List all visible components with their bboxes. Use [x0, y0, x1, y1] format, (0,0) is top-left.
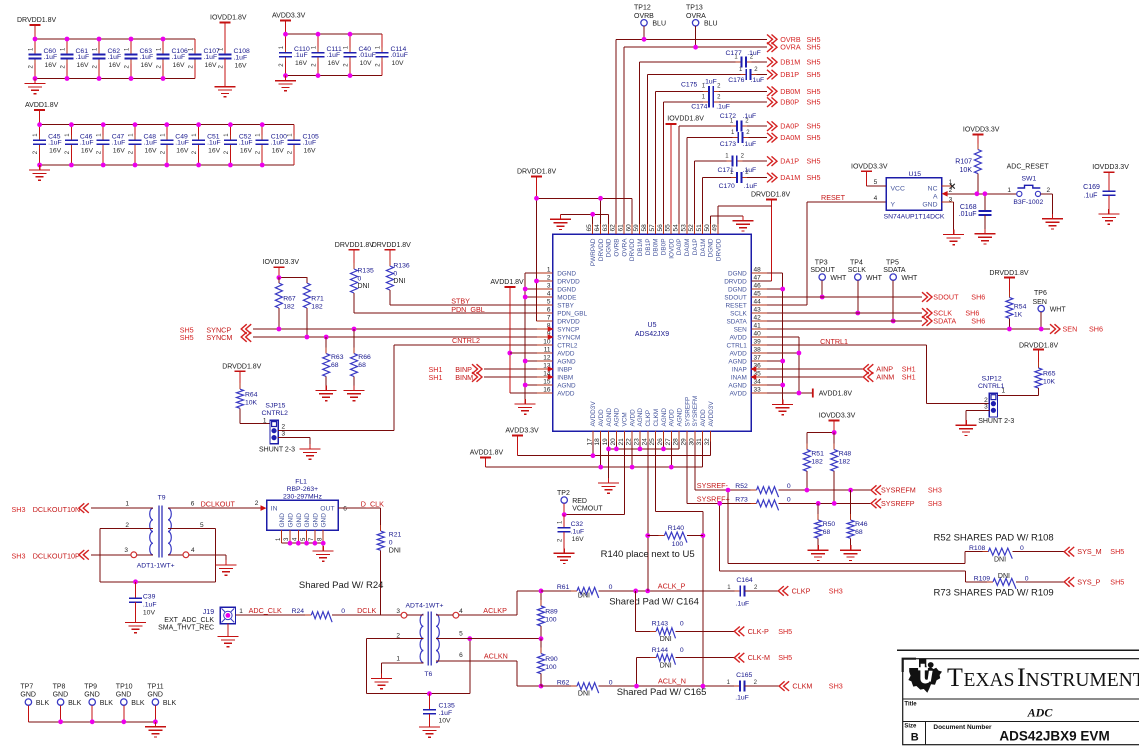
resistor R21 0 DNI [377, 525, 401, 615]
capacitor C176 [739, 67, 758, 80]
resistor R52 0 [735, 483, 871, 497]
svg-text:SH5: SH5 [807, 157, 821, 166]
capacitor C171 [725, 153, 744, 166]
wire net SYSREF+ (pin29) [687, 442, 757, 504]
wire net SYSREF- (pin30) [695, 442, 757, 491]
pin 30 SYSREFM [688, 396, 699, 446]
capacitor C173 [731, 130, 750, 143]
svg-text:.1uF: .1uF [736, 600, 750, 607]
junction C62 rails [97, 37, 102, 81]
resistor R65 10K [998, 343, 1059, 396]
wire TP gnd bus [28, 721, 155, 723]
svg-text:SH5: SH5 [807, 173, 821, 182]
wire net ADC_CLK / R24 0 / DCLK [236, 606, 402, 622]
svg-text:.1uF: .1uF [44, 54, 58, 61]
power flag AVDD1.8V left of U5 [490, 279, 537, 393]
svg-text:T: T [947, 663, 963, 692]
svg-text:46: 46 [754, 283, 762, 290]
off-page connector SYSREFM SH3 [871, 485, 942, 495]
svg-text:DRVDD: DRVDD [598, 238, 605, 261]
resistor R107 10K [955, 127, 1000, 194]
wire T9 pin1 [91, 507, 153, 509]
svg-text:.1uF: .1uF [80, 140, 94, 147]
svg-text:C135: C135 [439, 702, 455, 709]
svg-text:CLKM: CLKM [653, 409, 660, 427]
svg-text:68: 68 [823, 529, 831, 536]
junction SEN R54 TP6 [1007, 327, 1044, 332]
test point TP4 SCLK [848, 260, 883, 314]
svg-text:ADS42JX9: ADS42JX9 [635, 331, 669, 338]
svg-text:C176: C176 [728, 77, 744, 84]
svg-text:4: 4 [547, 291, 551, 298]
svg-text:64: 64 [594, 224, 601, 232]
logo Texas Instruments [908, 659, 1139, 693]
svg-text:AVDD3V: AVDD3V [708, 401, 715, 427]
svg-text:39: 39 [754, 339, 762, 346]
pin 3 DGND [537, 283, 576, 294]
svg-text:DNI: DNI [998, 573, 1010, 580]
svg-text:DGND: DGND [557, 286, 576, 293]
wire net DB0M [655, 91, 767, 224]
wire AVDD3V rail pins 17 32 [518, 442, 711, 456]
svg-text:AVDD3.3V: AVDD3.3V [272, 13, 306, 20]
svg-text:C168: C168 [960, 204, 977, 211]
svg-text:DRVDD1.8V: DRVDD1.8V [335, 242, 374, 249]
svg-text:AVDD: AVDD [557, 390, 575, 397]
svg-text:BLK: BLK [100, 700, 114, 707]
wire T9 pin3 [91, 552, 153, 558]
svg-text:PDN_GBL: PDN_GBL [451, 305, 485, 314]
junction TP4 [855, 311, 860, 316]
resistor R109 0 DNI [966, 573, 1065, 589]
svg-text:.1uF: .1uF [716, 103, 730, 110]
svg-text:0: 0 [358, 276, 362, 283]
svg-text:IOVDD3.3V: IOVDD3.3V [963, 127, 1000, 134]
pin 53 DA0M [680, 224, 691, 256]
svg-text:SJP15: SJP15 [265, 403, 285, 410]
svg-text:49: 49 [712, 224, 719, 232]
svg-text:57: 57 [649, 224, 656, 232]
svg-text:AGND: AGND [557, 358, 576, 365]
svg-text:.1uF: .1uF [144, 140, 158, 147]
power flag AVDD3.3V below U5 [505, 428, 539, 456]
svg-text:DRVDD1.8V: DRVDD1.8V [222, 363, 261, 370]
capacitor C63 [125, 39, 154, 79]
svg-text:DRVDD1.8V: DRVDD1.8V [989, 270, 1028, 277]
pin 64 DRVDD [594, 224, 605, 261]
svg-text:DA0M: DA0M [780, 133, 800, 142]
svg-text:DRVDD: DRVDD [557, 278, 580, 285]
svg-text:SYSREFM: SYSREFM [692, 396, 699, 427]
pin 34 AGND [728, 379, 767, 390]
capacitor C52 [224, 125, 253, 165]
capacitor C47 [97, 125, 126, 165]
svg-text:DB1M: DB1M [780, 58, 800, 67]
svg-text:3: 3 [124, 547, 128, 554]
svg-text:DRVDD1.8V: DRVDD1.8V [751, 192, 790, 199]
capacitor C39 .1uF 10V [129, 582, 157, 618]
svg-text:IOVDD3.3V: IOVDD3.3V [263, 259, 300, 266]
pin 15 AGND [537, 379, 576, 390]
svg-text:DRVDD: DRVDD [557, 318, 580, 325]
svg-text:GND: GND [304, 513, 311, 528]
svg-text:2: 2 [547, 275, 551, 282]
ground C168 [974, 229, 995, 244]
svg-text:R71: R71 [311, 296, 324, 303]
svg-text:SYS_P: SYS_P [1077, 577, 1100, 586]
resistor R73 0 [735, 496, 871, 510]
junction AVDD bus right [797, 351, 802, 396]
svg-text:SH3: SH3 [12, 552, 26, 561]
svg-text:PWRPAD: PWRPAD [590, 238, 597, 266]
pin 40 AVDD [730, 331, 767, 342]
svg-text:SH3: SH3 [829, 682, 843, 691]
svg-text:AINM: AINM [876, 373, 894, 382]
pin 17 AVDD3V [586, 401, 597, 446]
svg-text:T9: T9 [158, 495, 166, 502]
svg-text:SH3: SH3 [829, 586, 843, 595]
pin 11 AVDD [537, 347, 575, 358]
svg-text:SDATA: SDATA [883, 267, 906, 274]
svg-text:SH5: SH5 [807, 133, 821, 142]
svg-text:DRVDD1.8V: DRVDD1.8V [372, 242, 411, 249]
capacitor C106 [157, 39, 188, 79]
svg-text:16V: 16V [141, 62, 154, 69]
svg-text:4: 4 [459, 608, 463, 615]
junction C60 rails [33, 37, 38, 81]
pin 25 CLKM [649, 409, 660, 446]
junction C61 rails [65, 37, 70, 81]
svg-text:6: 6 [547, 307, 551, 314]
svg-text:DB0P: DB0P [780, 98, 799, 107]
wire AVDD pin11 tap [510, 352, 537, 354]
svg-text:52: 52 [688, 224, 695, 232]
pin 62 OVRB [610, 224, 621, 257]
svg-text:SDATA: SDATA [933, 317, 956, 326]
svg-text:DCLKOUT: DCLKOUT [201, 499, 236, 508]
label C177 [726, 50, 761, 57]
svg-text:GND: GND [922, 202, 937, 209]
svg-text:TP9: TP9 [84, 683, 97, 690]
svg-text:CNTRL2: CNTRL2 [262, 410, 289, 417]
resistor R46 68 [847, 490, 868, 545]
pin 60 DRVDD [625, 224, 636, 261]
ground SJP12 [956, 420, 977, 435]
svg-text:SH1: SH1 [902, 373, 916, 382]
pin 13 INBP [537, 363, 572, 374]
svg-text:SYSREF+: SYSREF+ [697, 494, 730, 503]
svg-text:100: 100 [545, 664, 557, 671]
power flag IOVDD1.8V [210, 15, 247, 23]
pin 10 CTRL2 [537, 339, 578, 350]
svg-text:AVDD3V: AVDD3V [590, 401, 597, 427]
svg-text:10V: 10V [392, 60, 405, 67]
svg-text:1: 1 [125, 501, 129, 508]
svg-text:WHT: WHT [1050, 306, 1067, 313]
pin 4 MODE [537, 291, 576, 302]
svg-text:Shared Pad W/ C165: Shared Pad W/ C165 [617, 687, 707, 698]
jumper SJP15 CNTRL2 [259, 403, 295, 454]
svg-text:NC: NC [928, 186, 938, 193]
svg-text:DNI: DNI [660, 636, 672, 643]
svg-text:1: 1 [263, 418, 267, 425]
svg-text:C164: C164 [736, 577, 752, 584]
svg-text:DNI: DNI [578, 593, 590, 600]
wire net CNTRL1 [767, 337, 989, 404]
svg-text:IOVDD3.3V: IOVDD3.3V [819, 413, 856, 420]
svg-text:.1uF: .1uF [207, 140, 221, 147]
svg-text:SJP12: SJP12 [982, 376, 1002, 383]
ground C39 [125, 618, 146, 633]
svg-text:SH5: SH5 [807, 122, 821, 131]
title block text [904, 701, 1109, 743]
svg-text:37: 37 [754, 355, 762, 362]
svg-text:BLK: BLK [131, 700, 145, 707]
svg-text:TP12: TP12 [634, 5, 651, 12]
capacitor C165 .1uF [727, 672, 779, 701]
svg-text:TP8: TP8 [53, 683, 66, 690]
svg-text:17: 17 [586, 438, 593, 446]
svg-text:.1uF: .1uF [239, 140, 253, 147]
svg-text:63: 63 [602, 224, 609, 232]
svg-text:AVDD1.8V: AVDD1.8V [490, 279, 524, 286]
svg-text:0: 0 [1025, 575, 1029, 582]
svg-text:SDATA: SDATA [726, 318, 747, 325]
svg-text:1: 1 [1002, 388, 1006, 395]
svg-text:AVDD: AVDD [669, 409, 676, 427]
wire DRVDD rail top [537, 198, 632, 321]
svg-text:SH5: SH5 [807, 58, 821, 67]
svg-text:OVRA: OVRA [780, 43, 801, 52]
pin 52 DA1P [688, 224, 699, 255]
wire AVDD3.3V bottom rail [286, 75, 383, 77]
svg-text:DGND: DGND [557, 270, 576, 277]
svg-text:CNTRL1: CNTRL1 [820, 337, 848, 346]
svg-text:R73 SHARES PAD W/ R109: R73 SHARES PAD W/ R109 [934, 587, 1054, 598]
ground AVDD1.8V bank [29, 165, 50, 180]
pin 39 CTRL1 [727, 339, 767, 350]
svg-text:SYSREF-: SYSREF- [697, 481, 729, 490]
svg-text:10K: 10K [245, 400, 258, 407]
junction AVDD3V pin17 [591, 453, 596, 458]
svg-text:DA0P: DA0P [780, 122, 799, 131]
junction C46 rails [69, 122, 74, 167]
svg-text:51: 51 [696, 224, 703, 232]
svg-text:TP5: TP5 [886, 260, 899, 267]
off-page connector SYS_P SH5 [1064, 577, 1124, 587]
capacitor C164 .1uF [727, 577, 778, 607]
svg-text:INBP: INBP [557, 366, 572, 373]
junction R48/SYSREF+ R50 tap [816, 501, 837, 506]
svg-text:16V: 16V [235, 63, 248, 70]
wire T9 bottom rail [100, 581, 216, 583]
svg-text:10: 10 [543, 339, 551, 346]
svg-text:B: B [911, 732, 919, 744]
pin 29 SYSREFP [680, 397, 691, 446]
svg-text:10K: 10K [960, 167, 973, 174]
svg-text:GND: GND [296, 513, 303, 528]
svg-text:55: 55 [665, 224, 672, 232]
wire AVDD bus right [767, 337, 813, 393]
svg-text:SH5: SH5 [807, 43, 821, 52]
test point TP8 GND [53, 683, 82, 721]
svg-text:DGND: DGND [708, 238, 715, 257]
svg-text:VCM: VCM [622, 412, 629, 426]
svg-text:DB0P: DB0P [661, 239, 668, 256]
pin 45 SDOUT [724, 291, 767, 302]
svg-text:47: 47 [754, 275, 762, 282]
junction TP5 [891, 319, 896, 324]
svg-text:R63: R63 [331, 354, 344, 361]
svg-text:R51: R51 [811, 451, 824, 458]
pin 46 DGND [728, 283, 767, 294]
svg-text:R65: R65 [1043, 370, 1056, 377]
svg-text:6: 6 [343, 506, 347, 513]
pin 63 DGND [602, 224, 613, 257]
resistor R108 0 DNI [965, 545, 1064, 564]
svg-text:SDOUT: SDOUT [724, 294, 746, 301]
junction TP12/OVRB [642, 37, 647, 42]
off-page connector SYNCM SH5 [180, 332, 252, 342]
ground R63 [316, 385, 337, 400]
svg-text:TP7: TP7 [20, 683, 33, 690]
pin 48 DGND [728, 267, 767, 278]
svg-text:16V: 16V [176, 148, 189, 155]
svg-text:44: 44 [754, 299, 762, 306]
svg-text:.01uF: .01uF [959, 211, 977, 218]
svg-text:SYS_M: SYS_M [1077, 547, 1101, 556]
svg-text:20: 20 [610, 438, 617, 446]
svg-text:10V: 10V [143, 610, 156, 617]
svg-text:AVDD: AVDD [700, 409, 707, 427]
svg-text:GND: GND [321, 513, 328, 528]
ground SJP15 [299, 444, 320, 459]
svg-text:C173: C173 [720, 141, 736, 148]
svg-text:AVDD: AVDD [730, 350, 748, 357]
junction IOVDD rail R67 [277, 275, 282, 280]
wire net DB0P [663, 102, 767, 224]
svg-text:18: 18 [594, 438, 601, 446]
svg-text:33: 33 [754, 387, 762, 394]
svg-text:45: 45 [754, 291, 762, 298]
svg-text:DB0M: DB0M [653, 239, 660, 257]
svg-text:27: 27 [665, 438, 672, 446]
svg-text:R64: R64 [245, 392, 258, 399]
svg-text:DCLK: DCLK [357, 606, 376, 615]
capacitor C175 [702, 84, 721, 97]
pin 47 DRVDD [724, 275, 767, 286]
svg-text:100: 100 [672, 541, 684, 548]
svg-text:23: 23 [633, 438, 640, 446]
svg-text:Document Number: Document Number [933, 724, 992, 731]
junction SYNCM/R71 R63 [305, 335, 329, 340]
junction IOVDD rail R48 [832, 430, 837, 435]
junction pin25/R140 [701, 533, 706, 538]
svg-text:OVRA: OVRA [686, 13, 706, 20]
pin 2 DRVDD [537, 275, 580, 286]
svg-text:CLKM: CLKM [792, 682, 812, 691]
ground J19 [217, 632, 238, 647]
svg-text:ADC: ADC [1027, 706, 1054, 720]
wire net SYS_P branch [720, 503, 966, 582]
svg-text:BLU: BLU [704, 20, 718, 27]
wire net D_CLK [338, 499, 384, 531]
svg-text:22: 22 [626, 438, 633, 446]
pin 59 DB1M [633, 224, 644, 256]
svg-text:.01uF: .01uF [359, 52, 376, 59]
resistor R62 0 DNI [541, 680, 637, 698]
svg-text:IOVDD: IOVDD [668, 238, 675, 259]
svg-text:5: 5 [874, 179, 878, 186]
pin 28 AGND [673, 408, 684, 446]
svg-text:43: 43 [754, 307, 762, 314]
svg-text:ADT1-1WT+: ADT1-1WT+ [137, 563, 175, 570]
svg-text:DNI: DNI [393, 278, 405, 285]
svg-text:0: 0 [341, 608, 345, 615]
pin 9 SYNCM [537, 331, 580, 342]
capacitor C105 [288, 125, 319, 165]
pin 56 DB0P [657, 224, 668, 255]
svg-text:R140 place next to U5: R140 place next to U5 [601, 549, 695, 560]
svg-text:SH3: SH3 [928, 499, 942, 508]
pin 4 Y of U15 [874, 195, 878, 202]
svg-text:3: 3 [396, 608, 400, 615]
svg-text:16V: 16V [240, 148, 253, 155]
svg-text:Title: Title [904, 701, 917, 707]
svg-text:SH5: SH5 [778, 627, 792, 636]
svg-text:DNI: DNI [389, 548, 401, 555]
svg-text:54: 54 [672, 224, 679, 232]
wire net SDOUT + off-page SH6 [767, 292, 985, 302]
svg-text:C169: C169 [1083, 184, 1100, 191]
svg-text:OVRA: OVRA [621, 238, 628, 257]
svg-text:42: 42 [754, 315, 762, 322]
pin 50 DGND [704, 224, 715, 257]
svg-text:5: 5 [459, 630, 463, 637]
svg-text:J19: J19 [203, 609, 214, 616]
svg-text:SYNCM: SYNCM [557, 334, 580, 341]
pin 36 INAP [732, 363, 767, 374]
power flag AVDD1.8V [25, 102, 59, 125]
svg-text:58: 58 [641, 224, 648, 232]
svg-text:.1uF: .1uF [172, 54, 186, 61]
svg-text:CTRL2: CTRL2 [557, 342, 578, 349]
junction AGND bus [606, 447, 666, 452]
off-page connector DA0M SH5 [767, 133, 820, 143]
label C170 [719, 183, 758, 190]
svg-text:.1uF: .1uF [143, 602, 157, 609]
ground DRVDD1.8V bank [25, 79, 46, 94]
svg-text:R52 SHARES PAD W/ R108: R52 SHARES PAD W/ R108 [934, 533, 1054, 544]
capacitor C169 .1uF [1083, 164, 1129, 209]
svg-text:.1uF: .1uF [743, 167, 757, 174]
junction SYS_M branch [726, 488, 731, 493]
junction C51 rails [196, 122, 201, 167]
junction pin65 gnd [590, 212, 595, 217]
note R140 place next to U5 [601, 549, 695, 560]
jumper SJP12 CNTRL1 [978, 376, 1014, 425]
off-page connector AINP SH1 [767, 364, 916, 374]
pin 1 NC of U15 (no connect) [942, 179, 955, 188]
svg-text:DNI: DNI [994, 557, 1006, 564]
junction DGND bus right [780, 287, 785, 388]
svg-text:68: 68 [358, 362, 366, 369]
svg-text:29: 29 [680, 438, 687, 446]
svg-text:60: 60 [625, 224, 632, 232]
svg-text:RED: RED [572, 498, 587, 505]
junction TP3 [820, 295, 825, 300]
label C171 [718, 167, 757, 174]
